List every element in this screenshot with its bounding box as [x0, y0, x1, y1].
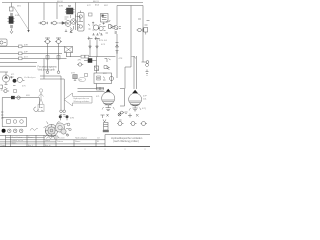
bus F wire y72	[0, 71, 8, 73]
spring below solenoid valve Y01	[10, 25, 13, 28]
control block box	[101, 14, 109, 23]
accumulator A1 ports	[106, 105, 111, 111]
title block right top rule	[105, 134, 150, 136]
check valve on drop 1	[89, 46, 92, 48]
wire manifold right	[92, 60, 97, 62]
check valve on service line	[116, 43, 119, 48]
svg-text:Datum: Datum	[57, 140, 63, 143]
svg-text:Viel Analyser: Viel Analyser	[24, 76, 36, 79]
gear pump unit P1	[67, 8, 74, 14]
svg-text:Gepr.: Gepr.	[12, 142, 17, 144]
drawing note text right	[111, 136, 143, 143]
title block row rule 3	[0, 143, 105, 145]
bus E wire y66	[0, 65, 36, 67]
accumulator A2 ports	[133, 106, 138, 111]
bus D wire y62	[0, 62, 37, 64]
indicator lamp (dark)	[13, 79, 17, 83]
pilot lines in pump cluster	[65, 15, 76, 20]
title block column dividers	[6, 135, 106, 147]
svg-text:47B: 47B	[59, 6, 63, 8]
wire from top border to valve chain	[11, 3, 13, 8]
svg-text:Ers. f.: Ers. f.	[28, 145, 34, 147]
port label box	[89, 13, 93, 16]
wire vertical bus x28	[28, 3, 30, 31]
bus B label box	[19, 52, 23, 55]
solenoid valve Y01 (dark body)	[9, 17, 13, 24]
svg-text:Norm: Norm	[45, 140, 50, 142]
drain tank right	[125, 112, 128, 114]
svg-text:Name: Name	[28, 137, 34, 139]
indicator small circle right rows	[118, 113, 121, 116]
tank on service line	[116, 51, 119, 54]
connector housing box	[1, 98, 3, 118]
svg-text:Hydr.speicher vor: Hydr.speicher vor	[74, 98, 90, 100]
title block row rule 2	[0, 141, 56, 143]
svg-text:47C: 47C	[87, 5, 91, 7]
hydraulic pump symbol bottom-left	[2, 75, 9, 82]
stub junction box to feed lines	[96, 84, 98, 89]
title block	[0, 135, 150, 147]
junction box lower mid	[94, 73, 112, 84]
pressure relief valve with spring	[109, 25, 114, 29]
pilot valve box	[10, 7, 14, 11]
check valve V1 on top chain	[42, 21, 46, 25]
svg-text:Zust. Datum: Zust. Datum	[12, 136, 23, 139]
filter cartridge	[104, 123, 109, 131]
right tall box left edge	[130, 6, 132, 68]
lower right cluster: tee fitting	[101, 114, 109, 118]
svg-text:Hydraulikplan: Hydraulikplan	[75, 138, 87, 140]
sensor tap on pair	[132, 57, 136, 59]
wire top chain	[39, 22, 69, 24]
reservoir box mid-left	[0, 39, 7, 46]
right lower valve row: valve 3	[142, 122, 146, 126]
pump circle P2	[71, 19, 76, 24]
wire from cooler to bus	[67, 53, 71, 58]
feed line label boxes	[97, 87, 100, 90]
accumulator A1 cap	[106, 89, 111, 92]
vertical service line x116	[116, 40, 118, 78]
gauge G2	[17, 77, 22, 82]
drain gauge left of A2 fittings	[120, 111, 123, 114]
connector pin sq	[7, 120, 11, 124]
accumulator A1 shell	[102, 92, 115, 105]
gauge on junction box right edge	[109, 76, 113, 80]
accumulator supply pair verticals	[134, 56, 137, 89]
mid bus label box 1	[81, 55, 85, 58]
right lower valve row: valve 1	[118, 122, 122, 126]
pressure switch symbol	[34, 106, 43, 111]
right tall box right edge	[142, 6, 144, 63]
flow arrow on top chain	[59, 22, 65, 25]
relief valve cluster right of pump	[70, 17, 80, 30]
accumulator feed line 1	[78, 88, 105, 90]
wire riser S1	[47, 44, 49, 72]
title block bottom rule	[0, 146, 150, 148]
solenoid pilot valve pair upper	[88, 37, 100, 40]
svg-text:47G 4-8: 47G 4-8	[99, 40, 108, 42]
filter on riser x96.5	[94, 66, 98, 70]
svg-text:47H: 47H	[71, 73, 75, 75]
supply wire y97.5	[2, 97, 40, 99]
gauge circle right	[146, 61, 149, 64]
svg-text:4E-10: 4E-10	[57, 1, 64, 3]
small valve pair below sensors	[4, 89, 7, 92]
drain marks under pump cluster	[65, 30, 72, 33]
svg-text:47Q: 47Q	[142, 108, 146, 110]
right lower valve row: valve 2	[131, 122, 135, 126]
accumulator A2 shell	[129, 93, 142, 105]
bus A wire y46	[0, 46, 65, 48]
wire riser x96.5	[96, 57, 98, 73]
label bubble left of junction box	[78, 77, 85, 81]
wire center divider x75.5	[75, 3, 77, 31]
motor circle M1	[65, 21, 71, 27]
accumulator A2 hatching	[129, 101, 141, 106]
shutoff valve S1	[46, 40, 50, 44]
wire manifold left	[84, 60, 88, 62]
bus C label box	[19, 57, 23, 60]
svg-text:Wartung entladen: Wartung entladen	[74, 100, 90, 103]
mid bus label box 2	[85, 55, 89, 58]
spring above solenoid valve Y01	[10, 13, 13, 16]
inline connector (dark) on supply wire	[11, 96, 15, 99]
right tall box top edge	[117, 5, 143, 7]
throttle valve at x113	[116, 6, 118, 26]
small cross fitting above valve row	[128, 114, 139, 118]
mid bus y56.5	[67, 56, 116, 58]
accumulator A2 cap	[132, 90, 138, 93]
wire corner x39.5	[39, 98, 41, 106]
restrictor far right	[144, 28, 148, 33]
wire riser x44	[43, 59, 45, 80]
terminal circle S1	[46, 71, 49, 74]
svg-text:47E: 47E	[24, 45, 28, 47]
check valve V2 on top chain	[53, 21, 57, 25]
svg-text:47J: 47J	[24, 57, 28, 59]
svg-text:47P: 47P	[143, 96, 147, 98]
fold marks below border	[85, 149, 145, 150]
valve symbols right mid	[105, 59, 111, 63]
wire corner right box to gauge	[142, 61, 147, 63]
arrow callout with note	[64, 93, 92, 106]
terminal circle S2	[57, 71, 60, 74]
left sensor cluster: gauge G1	[5, 86, 16, 90]
svg-text:Vied jewels gelb: Vied jewels gelb	[38, 68, 56, 71]
accumulator feed line 2	[78, 91, 107, 92]
tank symbols under valve cluster	[92, 33, 102, 35]
bus C wire y58	[0, 58, 67, 60]
check valve far right	[138, 28, 142, 32]
shutoff valve S2	[57, 40, 61, 44]
terminal row: pin 3	[13, 129, 17, 133]
svg-text:Urspr.: Urspr.	[1, 145, 7, 147]
wire drops from pilot valves	[90, 40, 97, 57]
bend wire bus to riser x61	[40, 76, 61, 110]
gauge on supply wire	[17, 96, 20, 99]
wire drop from border at x57	[56, 3, 58, 20]
accumulator A2 supply bend	[120, 89, 125, 107]
breather cap	[103, 120, 106, 123]
valve cluster circles	[93, 25, 98, 30]
measuring point M	[88, 20, 110, 33]
bend wire into tall box	[125, 67, 131, 89]
terminal row: pin 2	[8, 129, 12, 133]
connector pin circle	[13, 120, 17, 124]
approval signature in title block	[47, 137, 54, 139]
svg-text:47K: 47K	[119, 58, 123, 60]
stud caps (dark)	[59, 115, 62, 118]
inline filter on riser S2	[57, 56, 60, 60]
check valve on drop 2	[96, 46, 99, 48]
terminal circle riser x61	[60, 110, 63, 113]
title block cell text row1	[1, 136, 101, 147]
title block top rule	[0, 134, 56, 136]
svg-text:4E-11: 4E-11	[93, 1, 99, 3]
test ports on housing	[1, 112, 3, 118]
title block mid top rule	[0, 139, 105, 141]
bus B wire y53	[0, 53, 62, 55]
svg-text:47F: 47F	[24, 52, 28, 54]
sheet top border	[2, 2, 143, 4]
terminal row: pin 4	[19, 129, 23, 133]
terminal studs below	[60, 115, 66, 116]
tank symbol below valve chain	[10, 29, 13, 34]
svg-text:(nach Wartung prüfen): (nach Wartung prüfen)	[113, 139, 139, 143]
hydraulic cylinder C1	[78, 13, 85, 32]
svg-text:47N: 47N	[70, 118, 74, 120]
dark manifold block	[88, 59, 92, 63]
svg-text:472-100: 472-100	[57, 138, 65, 140]
mechanical linkage diagonal	[14, 7, 29, 30]
breather filter above terminals	[73, 75, 77, 81]
terminal row: pin 1 (filled)	[2, 129, 6, 133]
machine isometric view	[44, 121, 72, 139]
valve inside junction box	[97, 76, 101, 80]
svg-text:Ers. d.: Ers. d.	[45, 145, 51, 147]
svg-text:Name: Name	[75, 141, 81, 143]
drain symbols right edge	[146, 64, 149, 76]
operator figure	[38, 89, 44, 112]
wire drop from border at x44	[43, 3, 45, 21]
signature squiggle	[30, 128, 38, 130]
inline filter on riser S1	[46, 56, 49, 60]
bend wire bus to riser x64	[40, 79, 64, 110]
wire riser S2	[58, 44, 60, 72]
oil cooler box with X	[65, 47, 73, 53]
accumulator A1 gas charge hatching	[102, 100, 114, 105]
terminal circle riser x64	[63, 110, 66, 113]
orifice row mid-left: bus A label box	[19, 45, 23, 48]
wire below throttle	[116, 34, 118, 40]
